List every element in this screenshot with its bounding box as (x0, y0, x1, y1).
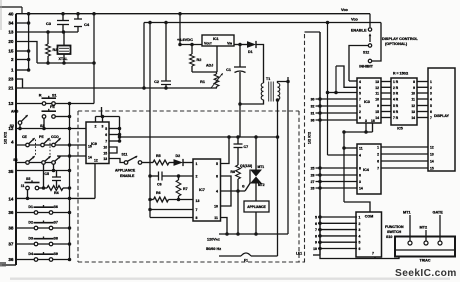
svg-text:S7: S7 (54, 221, 58, 225)
svg-text:12: 12 (411, 104, 415, 108)
svg-text:31: 31 (311, 112, 315, 116)
svg-text:2: 2 (430, 86, 432, 90)
svg-text:21: 21 (8, 86, 14, 91)
svg-text:9: 9 (413, 86, 415, 90)
svg-text:1: 1 (430, 80, 432, 84)
svg-text:D3: D3 (28, 237, 33, 241)
svg-text:1: 1 (11, 68, 14, 73)
svg-text:5: 5 (359, 241, 361, 245)
svg-text:S6: S6 (54, 205, 58, 209)
svg-text:ENABLE: ENABLE (351, 29, 367, 33)
svg-text:5: 5 (315, 216, 317, 220)
svg-text:MT1: MT1 (403, 211, 411, 215)
svg-text:ADJ: ADJ (206, 64, 213, 68)
svg-text:C2: C2 (154, 80, 159, 84)
svg-text:R: R (39, 94, 42, 98)
svg-text:DISPLAY CONTROL: DISPLAY CONTROL (382, 37, 419, 41)
svg-text:15: 15 (375, 110, 379, 114)
svg-text:11: 11 (214, 216, 218, 220)
svg-text:6: 6 (377, 160, 379, 164)
svg-text:2: 2 (359, 110, 361, 114)
svg-text:26: 26 (311, 187, 315, 191)
svg-text:13: 13 (8, 101, 14, 106)
svg-text:6: 6 (315, 222, 317, 226)
svg-text:8: 8 (359, 167, 361, 171)
svg-text:28: 28 (311, 174, 315, 178)
svg-text:6: 6 (359, 174, 361, 178)
svg-text:7: 7 (105, 140, 107, 144)
svg-text:25: 25 (311, 167, 315, 171)
svg-text:13: 13 (375, 80, 379, 84)
svg-text:8: 8 (413, 80, 415, 84)
svg-text:2: 2 (11, 57, 14, 62)
svg-text:14: 14 (430, 160, 434, 164)
svg-text:S2: S2 (10, 124, 14, 128)
svg-text:1: 1 (196, 162, 198, 166)
svg-text:8: 8 (196, 216, 198, 220)
svg-text:R6: R6 (156, 191, 161, 195)
svg-text:23: 23 (8, 77, 14, 82)
svg-text:32: 32 (311, 105, 315, 109)
svg-text:3 R: 3 R (393, 92, 399, 96)
svg-text:COM: COM (365, 215, 373, 219)
svg-text:2: 2 (95, 125, 97, 129)
svg-text:VDD: VDD (351, 17, 358, 22)
svg-text:6: 6 (359, 86, 361, 90)
svg-text:R1: R1 (200, 80, 205, 84)
svg-text:11: 11 (412, 98, 416, 102)
svg-text:SWITCH: SWITCH (387, 230, 402, 234)
svg-text:14: 14 (88, 156, 92, 160)
svg-text:T1: T1 (266, 77, 270, 81)
svg-text:15: 15 (430, 167, 434, 171)
svg-text:D2: D2 (176, 154, 181, 158)
svg-text:6: 6 (216, 175, 218, 179)
svg-text:(OPTIONAL): (OPTIONAL) (385, 42, 408, 46)
svg-text:7: 7 (196, 208, 198, 212)
svg-text:37: 37 (8, 242, 14, 247)
svg-text:6: 6 (430, 110, 432, 114)
svg-text:FUNCTION: FUNCTION (385, 225, 404, 229)
svg-text:C4: C4 (84, 22, 90, 27)
svg-text:14: 14 (8, 197, 14, 202)
svg-text:S11: S11 (122, 153, 128, 157)
svg-text:ENABLE: ENABLE (120, 174, 135, 178)
svg-text:R8: R8 (230, 170, 235, 174)
svg-text:Q1(123): Q1(123) (240, 164, 252, 168)
svg-text:5: 5 (430, 104, 432, 108)
svg-text:C7: C7 (244, 145, 249, 149)
svg-text:3: 3 (365, 119, 367, 123)
svg-text:16: 16 (371, 119, 375, 123)
svg-text:5: 5 (216, 162, 218, 166)
svg-text:5 R: 5 R (393, 104, 399, 108)
svg-text:R4: R4 (54, 191, 59, 195)
svg-text:IC5: IC5 (397, 127, 403, 131)
svg-text:7: 7 (377, 167, 379, 171)
svg-text:36: 36 (8, 257, 14, 262)
svg-text:12: 12 (375, 86, 379, 90)
svg-text:10: 10 (411, 92, 415, 96)
svg-text:5: 5 (359, 92, 361, 96)
svg-text:7: 7 (372, 252, 374, 256)
svg-text:7 R: 7 R (393, 116, 399, 120)
svg-text:4 R: 4 R (393, 98, 399, 102)
svg-text:13: 13 (196, 199, 200, 203)
svg-text:IC7: IC7 (199, 188, 205, 192)
svg-text:4: 4 (359, 154, 361, 158)
svg-text:38: 38 (8, 226, 14, 231)
svg-text:9: 9 (377, 104, 379, 108)
svg-text:1 R: 1 R (393, 80, 399, 84)
svg-text:14: 14 (411, 116, 415, 120)
svg-text:3: 3 (430, 92, 432, 96)
svg-text:10: 10 (313, 247, 317, 251)
svg-text:10: 10 (214, 205, 218, 209)
svg-text:6 R: 6 R (393, 110, 399, 114)
svg-text:PE: PE (39, 135, 44, 139)
svg-text:VIN: VIN (227, 41, 232, 45)
svg-text:S5: S5 (26, 177, 30, 181)
svg-text:R = 150Ω: R = 150Ω (393, 72, 408, 76)
svg-text:G: G (242, 185, 245, 189)
svg-text:C6: C6 (157, 183, 162, 187)
svg-text:VDD: VDD (341, 7, 348, 12)
svg-text:50/60 Hz: 50/60 Hz (206, 247, 221, 251)
svg-text:4: 4 (359, 80, 361, 84)
svg-text:13: 13 (411, 110, 415, 114)
svg-text:7: 7 (430, 116, 432, 120)
svg-text:C5: C5 (44, 172, 49, 176)
svg-text:7: 7 (359, 98, 361, 102)
svg-text:2: 2 (359, 222, 361, 226)
svg-text:34: 34 (8, 21, 14, 26)
svg-text:D1: D1 (28, 205, 33, 209)
svg-text:2 R: 2 R (393, 86, 399, 90)
svg-text:35: 35 (8, 169, 14, 174)
svg-text:9: 9 (315, 241, 317, 245)
svg-text:6: 6 (359, 247, 361, 251)
svg-text:INHIBIT: INHIBIT (359, 65, 373, 69)
svg-text:14: 14 (359, 187, 363, 191)
svg-text:12: 12 (94, 159, 98, 163)
svg-text:D1: D1 (248, 50, 253, 54)
svg-text:IC4: IC4 (363, 168, 370, 172)
svg-text:4: 4 (430, 98, 432, 102)
svg-text:D4: D4 (28, 252, 33, 256)
svg-text:FE: FE (50, 105, 55, 109)
svg-text:MT2: MT2 (420, 226, 428, 230)
svg-text:DISPLAY: DISPLAY (434, 114, 450, 118)
svg-text:MT1: MT1 (258, 165, 265, 169)
svg-text:S10: S10 (386, 235, 392, 239)
svg-text:C3: C3 (46, 21, 52, 26)
svg-text:S12: S12 (363, 51, 369, 55)
svg-text:APPLIANCE: APPLIANCE (115, 169, 136, 173)
svg-text:4: 4 (11, 140, 14, 145)
svg-text:13: 13 (8, 30, 14, 35)
svg-text:120VAC: 120VAC (207, 238, 220, 242)
svg-text:1: 1 (377, 146, 379, 150)
svg-text:12: 12 (430, 146, 434, 150)
svg-text:GATE: GATE (433, 211, 444, 215)
svg-text:MT2: MT2 (258, 183, 265, 187)
svg-text:S4: S4 (13, 158, 17, 162)
svg-text:CCO: CCO (51, 135, 59, 139)
svg-text:16: 16 (88, 145, 92, 149)
svg-text:3: 3 (359, 180, 361, 184)
svg-text:13: 13 (103, 157, 107, 161)
svg-text:36: 36 (8, 210, 14, 215)
svg-text:VOUT: VOUT (204, 41, 212, 45)
svg-text:11: 11 (375, 92, 379, 96)
svg-text:4: 4 (216, 190, 218, 194)
svg-text:R5: R5 (156, 154, 161, 158)
svg-text:CE: CE (22, 135, 28, 139)
svg-text:20: 20 (8, 39, 14, 44)
svg-text:3: 3 (102, 125, 104, 129)
svg-text:11: 11 (359, 147, 363, 151)
svg-text:4: 4 (359, 234, 361, 238)
svg-text:1: 1 (359, 216, 361, 220)
svg-text:IC3: IC3 (364, 100, 370, 104)
svg-text:1/2 IC2: 1/2 IC2 (308, 132, 312, 144)
svg-text:1: 1 (359, 104, 361, 108)
svg-text:D2: D2 (28, 221, 33, 225)
svg-text:ANS: ANS (11, 110, 19, 114)
svg-text:11: 11 (21, 184, 25, 188)
svg-text:S1: S1 (52, 94, 57, 98)
svg-text:SeekIC.com: SeekIC.com (395, 268, 457, 279)
svg-text:F1: F1 (244, 259, 248, 263)
svg-text:+8.6VDC: +8.6VDC (177, 37, 193, 42)
svg-text:10: 10 (103, 146, 107, 150)
svg-text:TRIAC: TRIAC (420, 259, 431, 263)
svg-text:27: 27 (311, 180, 315, 184)
svg-text:8: 8 (315, 234, 317, 238)
svg-text:13: 13 (430, 153, 434, 157)
svg-text:2: 2 (196, 175, 198, 179)
svg-text:9: 9 (359, 116, 361, 120)
svg-text:15: 15 (103, 152, 107, 156)
svg-text:C1: C1 (226, 68, 231, 72)
svg-text:LE1: LE1 (296, 252, 302, 256)
svg-text:15: 15 (8, 49, 14, 54)
svg-text:S8: S8 (54, 237, 58, 241)
svg-text:3: 3 (359, 228, 361, 232)
svg-text:IC1: IC1 (213, 37, 219, 41)
svg-text:30: 30 (311, 98, 315, 102)
svg-text:14: 14 (375, 116, 379, 120)
svg-text:10: 10 (375, 98, 379, 102)
svg-text:IC9: IC9 (91, 142, 97, 146)
svg-text:R7: R7 (183, 187, 188, 191)
svg-text:APPLIANCE: APPLIANCE (247, 205, 265, 209)
svg-text:2: 2 (377, 153, 379, 157)
svg-text:36: 36 (311, 119, 315, 123)
svg-text:S9: S9 (54, 252, 58, 256)
svg-text:7: 7 (315, 228, 317, 232)
svg-text:5: 5 (105, 127, 107, 131)
svg-text:1/2 IC2: 1/2 IC2 (4, 132, 8, 144)
svg-text:R2: R2 (197, 58, 202, 62)
svg-text:6: 6 (105, 133, 107, 137)
svg-text:40: 40 (8, 12, 14, 17)
